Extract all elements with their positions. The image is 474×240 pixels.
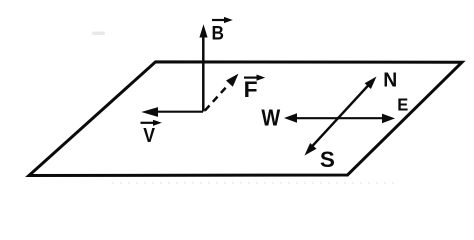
- compass N-S double arrow: [305, 77, 377, 156]
- B vector arrowhead: [199, 24, 207, 37]
- wire: B vector shaft: [202, 37, 205, 112]
- hat arrow over F: [244, 75, 265, 81]
- hat arrow over v: [141, 120, 162, 126]
- svg-text:F: F: [244, 77, 258, 102]
- svg-text:W: W: [261, 105, 281, 131]
- vector v shaft: [156, 111, 203, 113]
- faint scan smudge: [92, 32, 105, 36]
- svg-text:B: B: [212, 22, 225, 44]
- plane (parallelogram): [29, 62, 462, 176]
- faint scan dots bottom: [112, 182, 400, 184]
- svg-text:S: S: [320, 147, 335, 172]
- v vector arrowhead: [141, 107, 158, 117]
- svg-text:V: V: [143, 124, 155, 147]
- svg-text:N: N: [383, 69, 397, 92]
- svg-text:E: E: [397, 94, 408, 114]
- hat arrow over B: [212, 17, 233, 23]
- compass W-E double arrow: [284, 113, 395, 123]
- F vector arrowhead: [226, 74, 239, 87]
- vector F dashed shaft: [205, 84, 229, 111]
